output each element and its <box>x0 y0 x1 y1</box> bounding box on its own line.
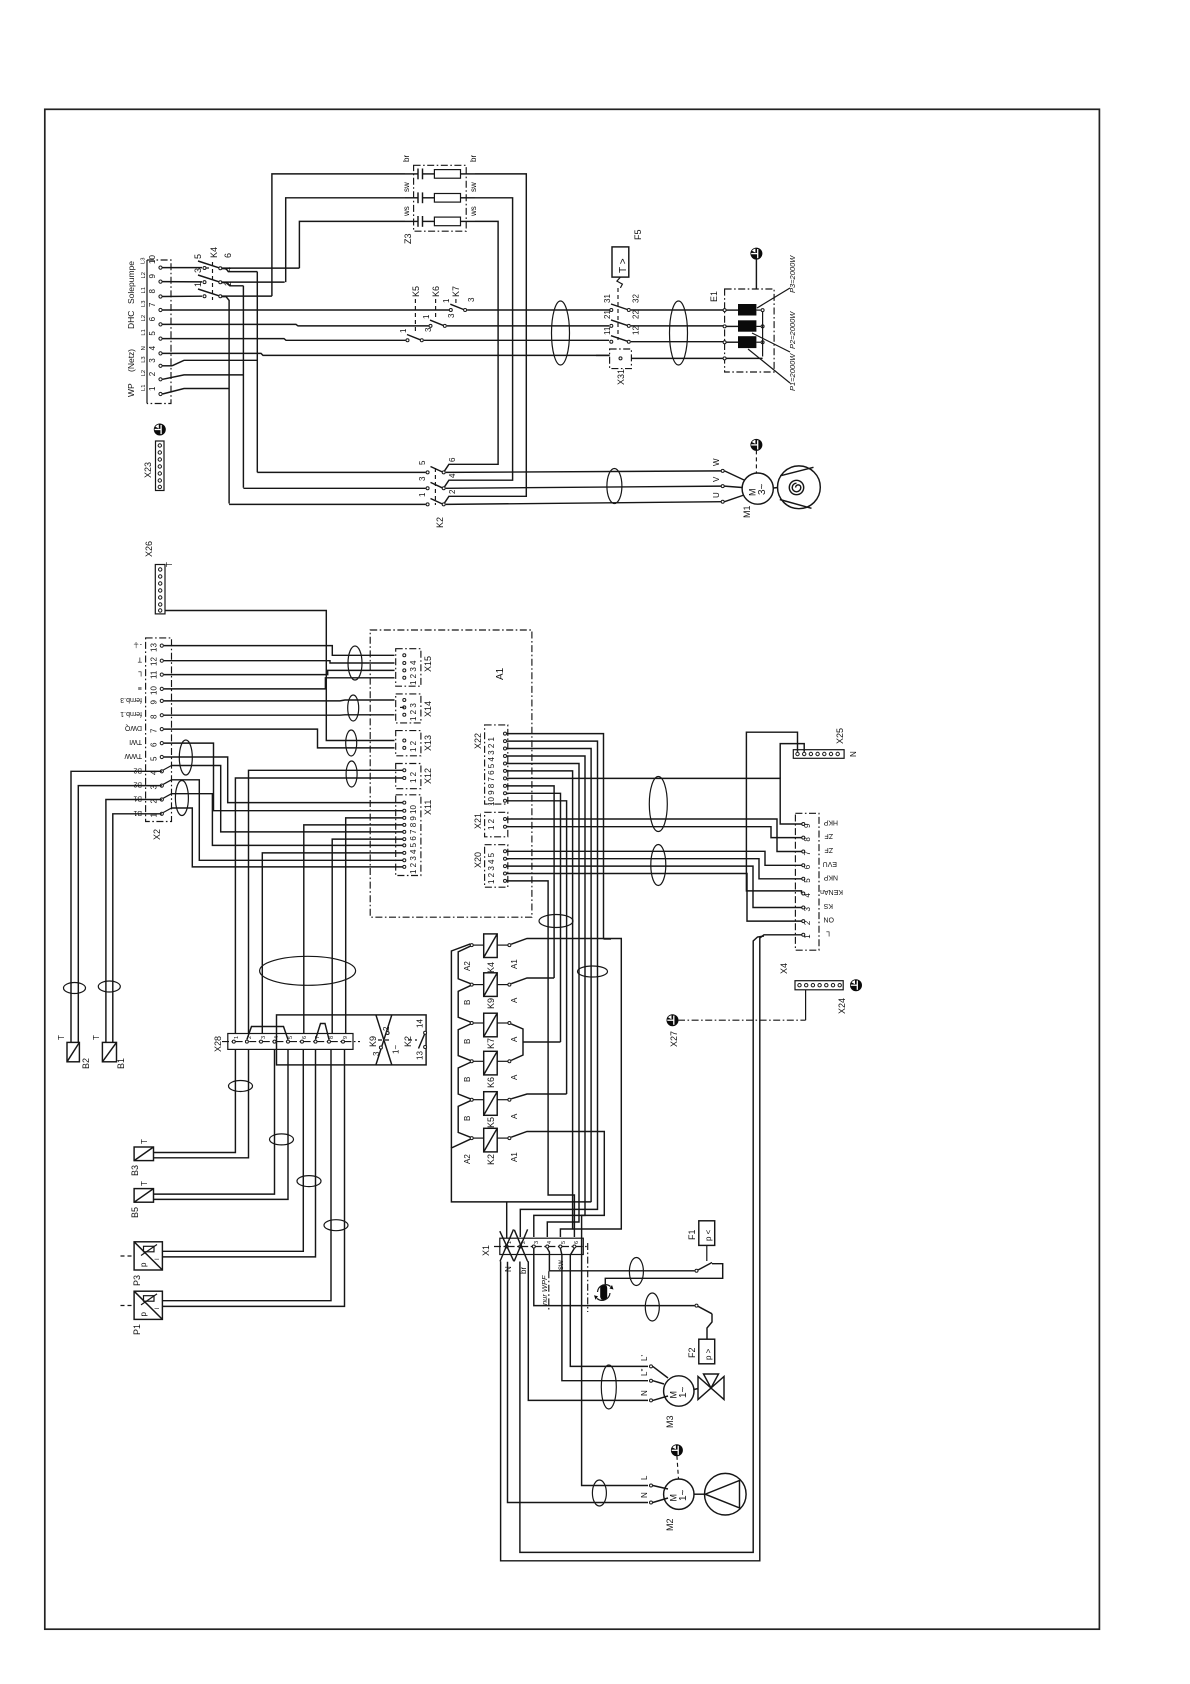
svg-text:32: 32 <box>632 294 641 303</box>
svg-text:KENAn: KENAn <box>820 888 843 895</box>
L labels <box>141 258 148 391</box>
relay coil K6 <box>463 1051 519 1088</box>
nur WPF dash mark <box>540 1243 588 1312</box>
jumper peak pins 7-8 <box>316 1024 330 1040</box>
svg-text:3: 3 <box>261 1036 267 1039</box>
svg-text:M: M <box>669 1494 679 1502</box>
svg-text:(Netz): (Netz) <box>126 349 136 372</box>
svg-text:br: br <box>469 155 478 162</box>
svg-text:fernb.1: fernb.1 <box>120 710 142 717</box>
svg-text:L1: L1 <box>141 329 147 335</box>
svg-text:F2: F2 <box>687 1347 697 1358</box>
connector X21 <box>473 812 508 837</box>
svg-text:1: 1 <box>148 386 157 391</box>
svg-text:22: 22 <box>632 310 641 319</box>
cable ellipse below A1 <box>539 915 573 928</box>
rotation direction symbol <box>594 1284 614 1300</box>
contactor K4 contacts <box>163 247 300 504</box>
svg-text:1: 1 <box>422 314 431 319</box>
svg-text:3: 3 <box>424 327 433 332</box>
svg-text:12: 12 <box>150 657 159 666</box>
wires verticals to sensor B5 <box>154 1049 275 1194</box>
svg-text:F1: F1 <box>687 1229 697 1240</box>
ellipse on B3 pair <box>229 1081 253 1092</box>
svg-text:N: N <box>640 1390 649 1396</box>
wire X2 pin5 TWW to X11 pin10 <box>164 757 403 803</box>
earth strip X23 <box>143 424 165 490</box>
wire X11 pin8 to X28 pin9 <box>346 818 403 1034</box>
connector X20 <box>473 845 508 888</box>
svg-text:P2=2000W: P2=2000W <box>788 311 797 349</box>
K2 row 1/2 <box>426 503 429 506</box>
wire X25 second link <box>780 744 804 779</box>
svg-text:K9: K9 <box>368 1036 378 1047</box>
wire K2 A1 to M2 L <box>511 1132 604 1267</box>
motor M1 <box>712 440 820 518</box>
svg-text:A2: A2 <box>463 1154 472 1164</box>
svg-text:1: 1 <box>442 298 451 303</box>
capacitor block Z3 <box>402 155 478 244</box>
terminal X4 <box>779 813 843 974</box>
svg-text:B2: B2 <box>81 1058 91 1069</box>
svg-text:I: I <box>155 1258 161 1260</box>
wires X2 pins 9,8 to X14 <box>164 699 395 702</box>
svg-text:X23: X23 <box>143 462 153 478</box>
connector X22 <box>473 725 508 806</box>
phase line L2(DHC) pin6 <box>163 324 429 326</box>
svg-text:ON: ON <box>824 916 835 923</box>
cable ellipse on right runs upper <box>649 777 667 832</box>
svg-text:9: 9 <box>150 700 159 705</box>
cable ellipse before E1 <box>670 301 688 365</box>
svg-text:5: 5 <box>150 756 159 761</box>
svg-text:P3: P3 <box>132 1275 142 1286</box>
svg-text:T: T <box>165 562 174 567</box>
connector X26 <box>144 541 174 614</box>
temperature sensor B3 <box>130 1139 154 1176</box>
svg-text:5: 5 <box>288 1036 294 1039</box>
phase line N pin4 <box>163 353 610 355</box>
wire X2 pin1 to X11 pin1 <box>172 808 403 867</box>
svg-text:p >: p > <box>704 1348 713 1360</box>
svg-text:sw: sw <box>402 182 411 192</box>
wire Z3 br right loop down to K2 blade 6 <box>445 174 527 503</box>
svg-text:X13: X13 <box>423 735 433 751</box>
svg-text:T: T <box>140 1181 149 1186</box>
wire X22 pin6 to X1 pin5 <box>507 771 573 1237</box>
svg-text:X4: X4 <box>779 963 789 974</box>
wire X25 to X4 pin4 <box>746 732 801 893</box>
svg-text:3: 3 <box>418 476 427 481</box>
svg-text:L3: L3 <box>141 301 147 307</box>
wire X2 pin2 to X11 pin4 <box>172 794 403 846</box>
svg-text:-⏚: -⏚ <box>133 641 142 649</box>
svg-text:B2: B2 <box>133 766 142 773</box>
wire K4 row1 down-bus to K2 <box>256 272 258 473</box>
X2 pin name labels (rotated 180) <box>120 641 142 816</box>
changeover contact K9 aux <box>368 1015 401 1065</box>
svg-text:31: 31 <box>603 294 612 303</box>
svg-text:1: 1 <box>418 492 427 497</box>
pins 10..1 of terminal block <box>159 266 162 396</box>
svg-text:13: 13 <box>416 1051 425 1060</box>
svg-text:M: M <box>748 489 758 497</box>
svg-text:≡: ≡ <box>138 684 142 691</box>
wire X26 to X13 <box>165 611 395 741</box>
svg-text:X26: X26 <box>144 541 154 557</box>
svg-text:3: 3 <box>467 297 476 302</box>
svg-text:9: 9 <box>343 1036 349 1039</box>
svg-text:L: L <box>640 1475 649 1480</box>
wire relay coil return zigzag bus <box>451 944 591 1238</box>
svg-text:L'': L'' <box>640 1368 649 1376</box>
wire K5 A <box>511 1094 566 1099</box>
svg-text:9: 9 <box>148 274 157 279</box>
wires verticals to pressure sensor P3 <box>162 1049 303 1251</box>
wire X22 pin5 to X1 pin4 <box>507 764 579 1238</box>
contact K5 <box>399 286 609 342</box>
svg-text:ZF: ZF <box>824 832 833 839</box>
svg-text:DWQ: DWQ <box>124 724 142 731</box>
pin numbers <box>148 255 157 391</box>
svg-text:9: 9 <box>803 823 812 828</box>
svg-text:P1=2000W: P1=2000W <box>788 353 797 391</box>
svg-text:A: A <box>510 997 519 1003</box>
svg-text:7: 7 <box>150 728 159 733</box>
wires X2 pins 4,3 to sensor B2 <box>71 771 162 1042</box>
svg-text:B1: B1 <box>116 1058 126 1069</box>
wire X11 pin5 to X28 pin8 <box>332 839 402 1033</box>
svg-text:A2: A2 <box>463 961 472 971</box>
terminal X1 <box>481 1229 588 1274</box>
wire Netz L2 pin2 join <box>163 375 244 379</box>
svg-text:1 2 3 4: 1 2 3 4 <box>409 660 418 685</box>
svg-text:1 2 3 4 5: 1 2 3 4 5 <box>487 852 496 884</box>
leader line P1 label <box>748 349 790 383</box>
svg-text:3~: 3~ <box>757 483 768 495</box>
svg-text:NKP: NKP <box>823 873 838 880</box>
cable ellipse top-left of X31 <box>552 301 570 365</box>
wire X2 pin4 to X11 pin6 <box>172 766 403 832</box>
svg-text:p <: p < <box>704 1229 713 1241</box>
svg-text:X24: X24 <box>837 998 847 1014</box>
ellipse on X12 wires <box>346 761 357 787</box>
svg-text:EVU: EVU <box>823 860 837 867</box>
wire X21 pin1 to X4 <box>507 819 802 852</box>
wire Z3 br left loop to K4 row3 <box>272 174 405 296</box>
relay coil K9 <box>463 973 519 1009</box>
svg-text:2: 2 <box>148 371 157 376</box>
wire Netz L3 pin3 join <box>163 360 258 366</box>
svg-text:4: 4 <box>803 893 812 898</box>
ground above X23 <box>155 424 165 434</box>
svg-text:6: 6 <box>574 1241 580 1244</box>
svg-text:4: 4 <box>547 1241 553 1244</box>
wires to M2 <box>582 1266 648 1486</box>
svg-text:5: 5 <box>193 254 203 259</box>
connector X15 <box>396 649 433 687</box>
svg-text:L': L' <box>640 1355 649 1361</box>
svg-text:B3: B3 <box>130 1165 140 1176</box>
svg-text:3: 3 <box>447 313 456 318</box>
svg-text:6: 6 <box>150 742 159 747</box>
wire X12 pin2 to X28 pin1 <box>235 778 402 1034</box>
wire X2 pin3 to X11 pin2 <box>172 780 403 861</box>
svg-text:K7: K7 <box>486 1038 496 1049</box>
svg-text:br: br <box>402 155 411 162</box>
svg-text:12: 12 <box>632 326 641 335</box>
relay coil K2 <box>463 1128 519 1165</box>
svg-text:B: B <box>463 1000 472 1005</box>
ground above M2 <box>672 1445 682 1455</box>
svg-text:B: B <box>463 1077 472 1082</box>
connector X13 <box>396 731 433 756</box>
svg-text:1 2: 1 2 <box>487 818 496 830</box>
svg-text:L: L <box>826 929 830 936</box>
wire K7 A to K6 A chain <box>511 1024 523 1061</box>
wire X12 pin1 to X28 pin2 <box>249 770 403 1033</box>
svg-text:1 2 3: 1 2 3 <box>409 703 418 721</box>
svg-text:K4: K4 <box>209 247 219 258</box>
relay coil K5 <box>463 1092 519 1128</box>
ellipse on X14 wires <box>348 695 359 721</box>
svg-text:7: 7 <box>148 302 157 307</box>
pump circle <box>694 1493 705 1495</box>
connector X25 <box>793 728 858 758</box>
contactor K2 contacts <box>229 457 723 528</box>
terminal block WP(Netz)/DHC/Solepumpe <box>126 255 171 404</box>
wire X11 pin3 to X28 pin3 <box>262 853 402 1034</box>
heater E1 <box>709 289 774 372</box>
svg-text:6: 6 <box>148 316 157 321</box>
svg-text:M2: M2 <box>665 1518 675 1531</box>
terminal block X2 <box>120 638 171 840</box>
compressor circle <box>773 487 778 490</box>
svg-text:T >: T > <box>618 258 629 273</box>
ellipse on B1 wires <box>98 981 120 992</box>
pressure switch F2 <box>687 1304 715 1364</box>
svg-text:2: 2 <box>448 489 457 494</box>
svg-text:L1: L1 <box>141 385 147 391</box>
ellipse on B2 wires <box>64 983 86 994</box>
svg-text:10: 10 <box>148 255 157 264</box>
K4 row 3/4 <box>163 267 285 286</box>
wire X22 pin7 to X4 pin9 HKP <box>507 778 802 824</box>
svg-text:M1: M1 <box>742 505 752 518</box>
svg-text:1 2 3 4 5 6 7 8 9 10: 1 2 3 4 5 6 7 8 9 10 <box>409 805 418 874</box>
svg-text:2: 2 <box>382 1026 391 1031</box>
svg-text:N: N <box>141 346 147 350</box>
ground above M1 <box>751 440 761 450</box>
svg-text:L2: L2 <box>141 272 147 278</box>
wire K4 A1 stub <box>604 938 612 940</box>
wires X28 to sensor B3 <box>154 1049 236 1152</box>
wires X20 pins 3-5 down <box>507 866 802 907</box>
svg-text:A: A <box>510 1113 519 1119</box>
svg-text:ZF: ZF <box>824 846 833 853</box>
phase line L1(DHC) pin5 <box>163 339 406 341</box>
svg-text:W: W <box>712 458 721 466</box>
wire K7/K6 A tap <box>523 1041 561 1043</box>
svg-text:X20: X20 <box>473 852 483 868</box>
connector X14 <box>396 694 433 723</box>
connector X31 on N line <box>609 349 725 385</box>
svg-text:T: T <box>57 1035 66 1040</box>
ground above E1 <box>751 248 761 289</box>
wire X21 pin2 to X4 <box>507 827 802 838</box>
svg-text:A1: A1 <box>510 1152 519 1162</box>
Z3 sw branch <box>402 182 478 203</box>
wire Z3 ws right loop down to K2 blade 2 <box>445 221 499 470</box>
svg-text:N: N <box>504 1266 513 1272</box>
cable ellipse on relay bundle <box>578 966 608 977</box>
svg-text:U: U <box>712 492 721 498</box>
svg-text:nur WPF: nur WPF <box>540 1275 549 1305</box>
svg-text:sw: sw <box>469 182 478 192</box>
wire X22 pin9 to K7/K6 A <box>507 793 561 1042</box>
svg-text:N: N <box>849 751 858 757</box>
svg-text:WP: WP <box>126 383 136 397</box>
svg-text:F5: F5 <box>633 229 643 240</box>
svg-text:8: 8 <box>329 1036 335 1039</box>
svg-text:A: A <box>510 1036 519 1042</box>
svg-text:1: 1 <box>803 934 812 939</box>
svg-text:Z3: Z3 <box>403 233 413 244</box>
svg-text:M: M <box>669 1391 679 1399</box>
K4 row 5/6 <box>163 253 300 272</box>
wire X2 pin6 TWI to X11 pin9 <box>164 743 403 811</box>
svg-text:ws: ws <box>469 206 478 217</box>
svg-text:4: 4 <box>223 267 233 272</box>
wires verticals to pressure sensor P1 <box>162 1049 331 1300</box>
svg-text:8: 8 <box>150 714 159 719</box>
pump motor M2 <box>640 1445 746 1531</box>
svg-text:X2: X2 <box>152 829 162 840</box>
valve symbol <box>698 1377 724 1400</box>
cable ellipse on right runs lower <box>651 845 666 886</box>
K4 row 1/2 <box>163 281 272 504</box>
wire N line into X31 <box>596 354 610 356</box>
svg-text:B: B <box>463 1039 472 1044</box>
X4 pin name labels rotated 180 <box>820 819 843 937</box>
svg-text:3: 3 <box>534 1241 540 1244</box>
wire K9 A <box>511 978 554 984</box>
svg-text:1: 1 <box>234 1036 240 1039</box>
ground right of X24 <box>851 980 861 990</box>
ellipse on P3 pair <box>297 1176 321 1187</box>
changeover contact K2 aux <box>403 1019 427 1060</box>
crossing swap at X1 pin 2 <box>514 1229 528 1261</box>
cable ellipse on F2 line <box>645 1293 659 1321</box>
valve motor M3 <box>640 1355 724 1428</box>
wire K4 A1 down to X1 area <box>511 939 621 1230</box>
connector X24 <box>795 980 861 1014</box>
svg-text:K6: K6 <box>431 286 441 297</box>
svg-text:6: 6 <box>448 457 457 462</box>
svg-text:X11: X11 <box>423 800 433 815</box>
svg-text:A: A <box>510 1074 519 1080</box>
svg-text:3: 3 <box>803 907 812 912</box>
svg-text:X31: X31 <box>616 369 626 385</box>
svg-text:1: 1 <box>399 328 408 333</box>
svg-text:K2: K2 <box>435 517 445 528</box>
ellipse on P1 pair <box>324 1220 348 1231</box>
svg-text:DHC: DHC <box>126 311 136 329</box>
svg-text:3: 3 <box>148 358 157 363</box>
svg-text:B5: B5 <box>130 1207 140 1218</box>
svg-text:13: 13 <box>150 643 159 652</box>
leader line P3 label <box>757 288 790 308</box>
cable ellipse before M1 <box>607 469 622 504</box>
relay coil K7 <box>463 1013 519 1049</box>
svg-text:A1: A1 <box>510 959 519 969</box>
changeover box around K9/K2 aux <box>277 1015 427 1065</box>
svg-text:8: 8 <box>803 837 812 842</box>
svg-text:3: 3 <box>372 1051 381 1056</box>
wires X2 pins 13-10 to X15 <box>164 646 395 656</box>
heating element 3 <box>738 336 756 348</box>
wire X1-3 to F2 <box>534 1248 695 1305</box>
pressure sensor P3 <box>121 1242 163 1286</box>
wire X2 pin7 DWQ to X13 pin2 <box>164 729 395 748</box>
svg-text:21: 21 <box>603 310 612 319</box>
svg-text:X25: X25 <box>835 728 845 744</box>
svg-text:11: 11 <box>603 326 612 335</box>
wire loop B X1-2 to X4-1 <box>520 936 764 1552</box>
svg-text:1~: 1~ <box>392 1045 401 1054</box>
svg-text:10: 10 <box>150 686 159 695</box>
heating element 1 <box>738 304 756 316</box>
wire K4 row2 down-bus to K2 <box>242 286 244 488</box>
leader line P2 label <box>752 333 790 352</box>
svg-text:K2: K2 <box>486 1154 496 1165</box>
wires X2 pins 2,1 to sensor B1 <box>106 800 162 1043</box>
svg-text:L1: L1 <box>141 287 147 293</box>
wire X22 pin2 to X1 pin2 <box>507 741 598 1237</box>
svg-text:L: L <box>138 670 142 677</box>
wire X1-4 to F1 <box>547 1248 694 1271</box>
wire X22 pin10 to K5 A <box>507 801 567 1094</box>
svg-text:K5: K5 <box>411 286 421 297</box>
svg-text:M3: M3 <box>665 1415 675 1428</box>
phase line L3(DHC) pin7 to E1 <box>163 309 450 311</box>
heating element 2 <box>738 320 756 331</box>
svg-text:4: 4 <box>274 1036 280 1039</box>
svg-text:B1: B1 <box>133 795 142 802</box>
svg-text:TWI: TWI <box>129 738 142 745</box>
svg-text:X22: X22 <box>473 733 483 749</box>
svg-text:V: V <box>712 476 721 482</box>
wire loop A X1-1 to X4-1 <box>501 935 802 1561</box>
svg-text:E1: E1 <box>709 291 719 302</box>
svg-text:B: B <box>463 1116 472 1121</box>
cable ellipse on F1 line <box>629 1258 643 1286</box>
thermal cutout F5 <box>612 229 643 340</box>
svg-text:4: 4 <box>148 345 157 350</box>
terminal strip X28 <box>213 1024 360 1053</box>
svg-text:p: p <box>139 1312 148 1317</box>
svg-text:X1: X1 <box>481 1245 491 1256</box>
svg-text:KS: KS <box>823 902 833 909</box>
svg-text:A1: A1 <box>495 667 506 680</box>
K2 row 5/6 <box>426 471 429 474</box>
svg-text:5: 5 <box>148 331 157 336</box>
svg-text:L2: L2 <box>141 315 147 321</box>
temperature sensor B1 <box>92 1035 126 1069</box>
svg-text:B2: B2 <box>133 781 142 788</box>
pressure sensor P1 <box>121 1291 163 1335</box>
svg-text:K4: K4 <box>486 962 496 973</box>
